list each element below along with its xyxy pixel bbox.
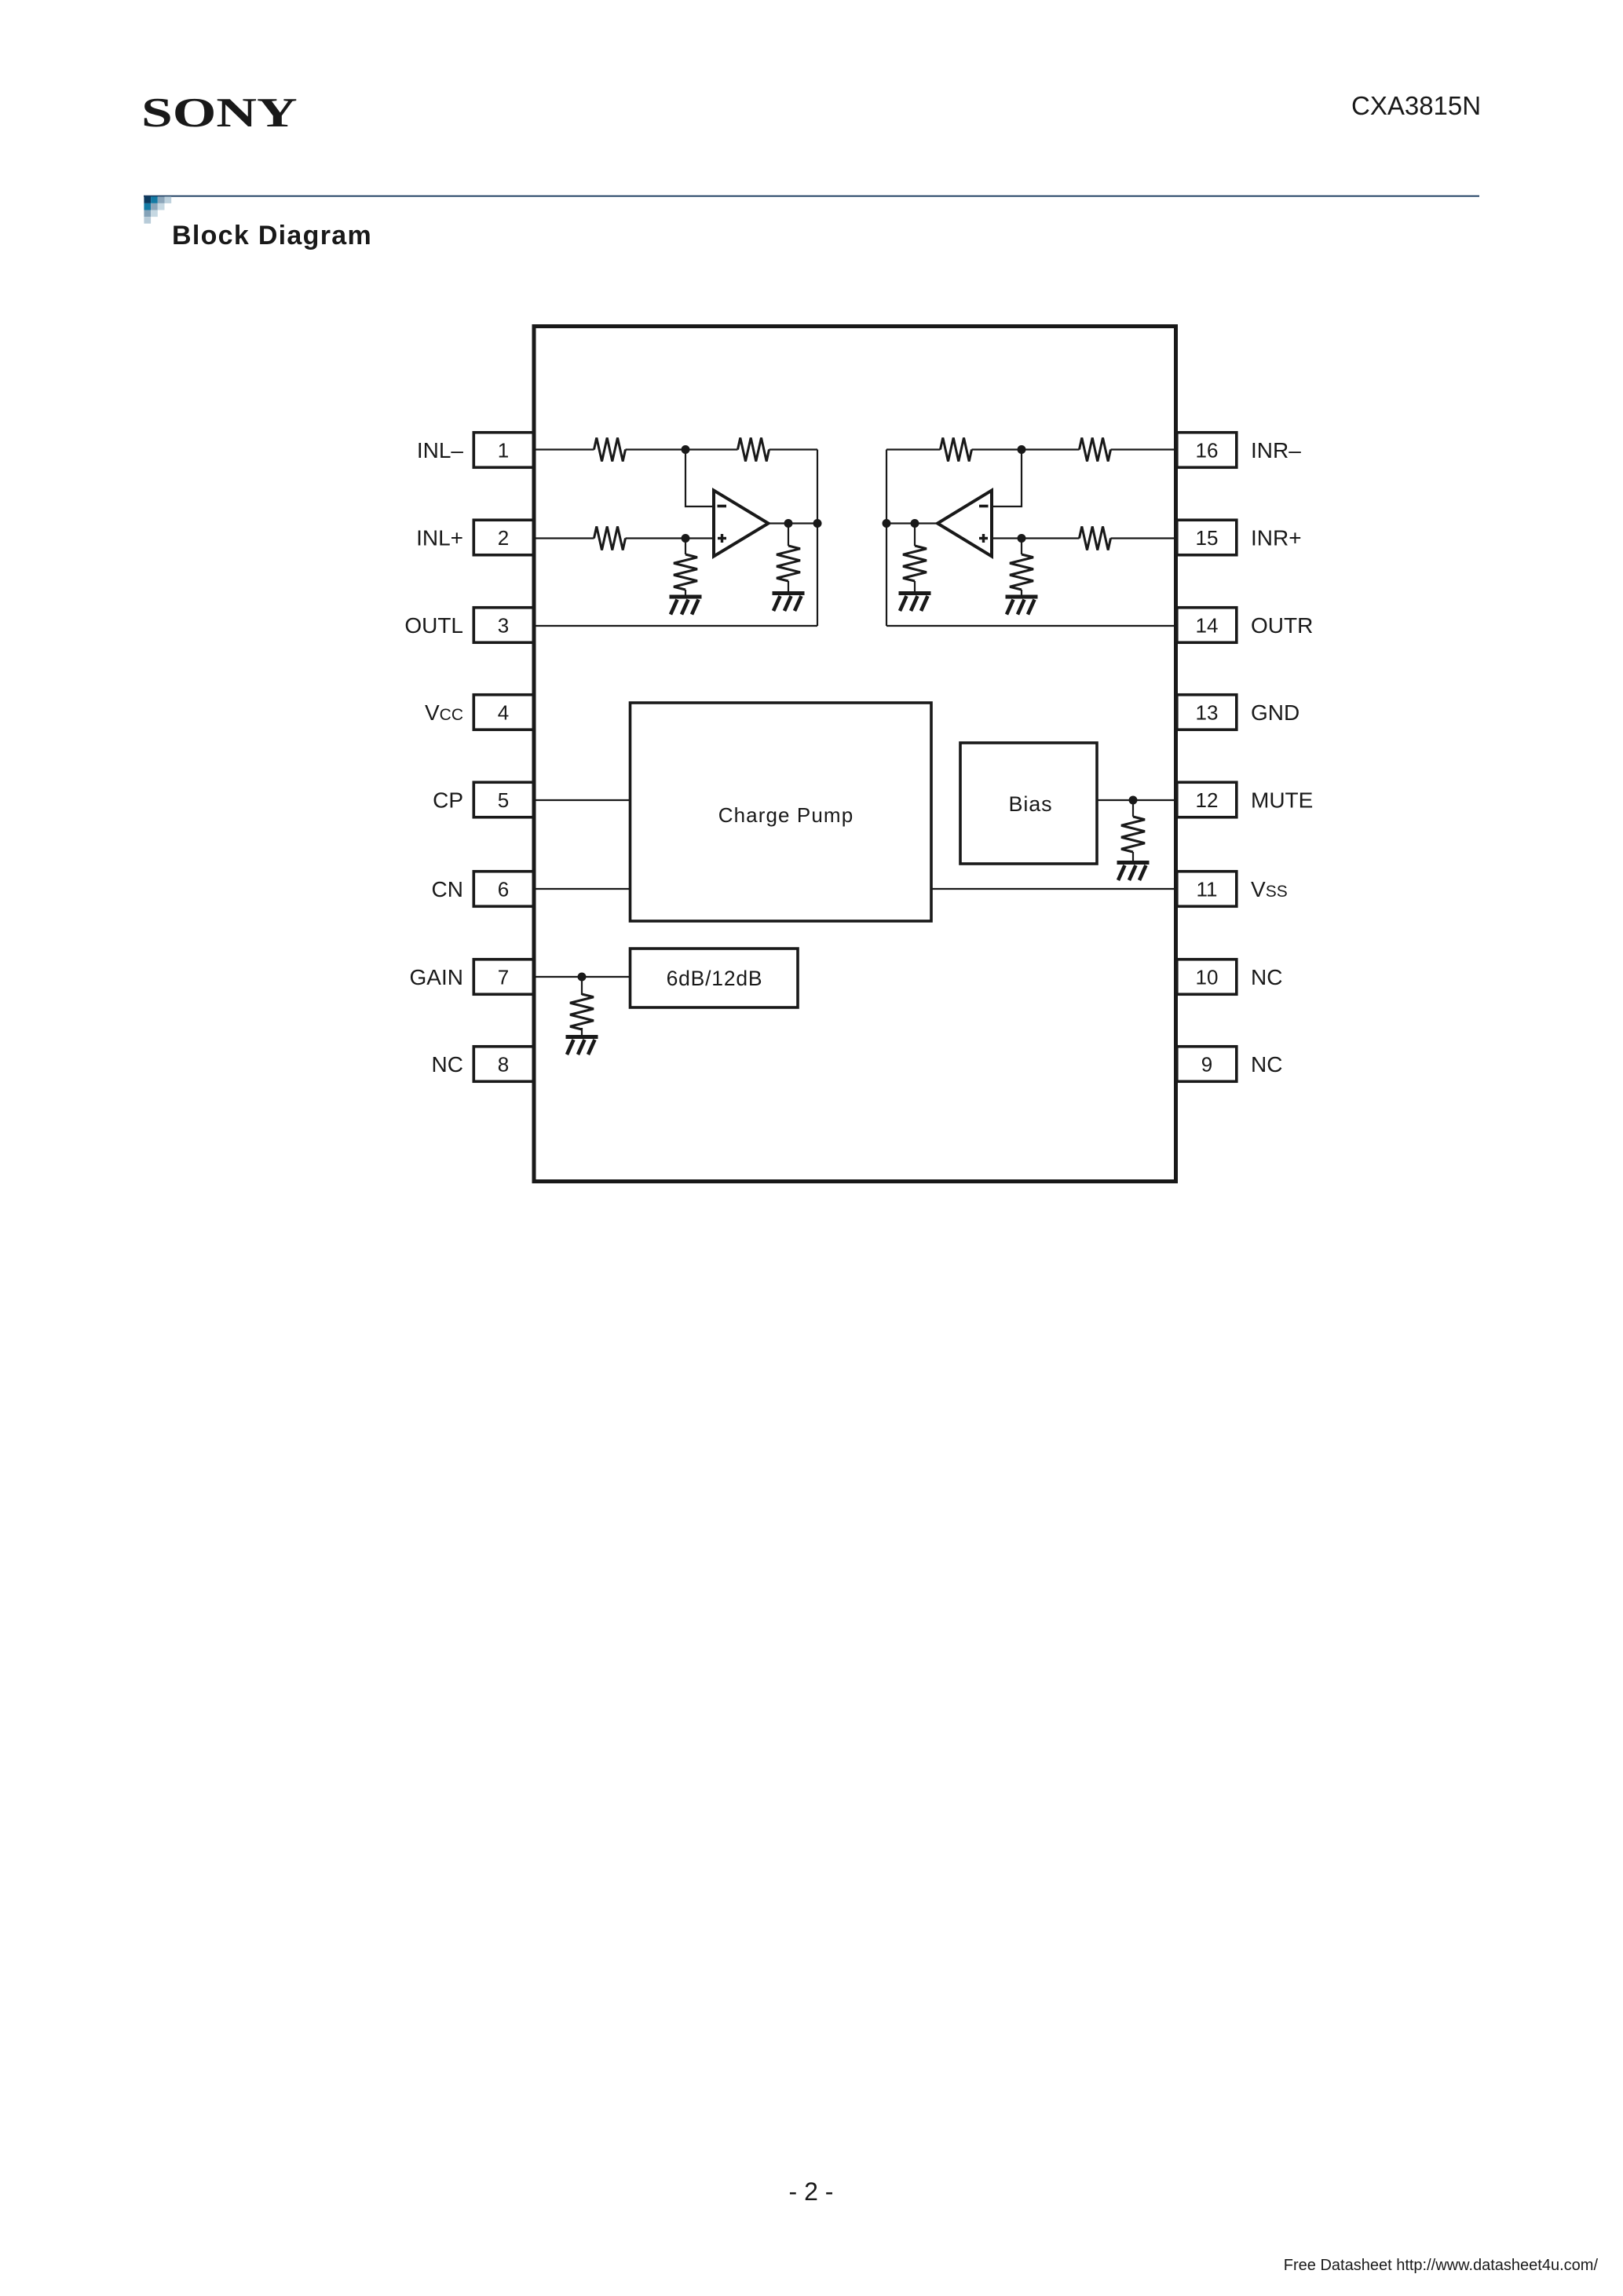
charge pump block xyxy=(631,703,932,921)
svg-text:15: 15 xyxy=(1196,526,1219,550)
op-amp U1 (left channel) xyxy=(714,491,769,557)
wire R to node E xyxy=(972,448,1080,450)
gain block 6dB/12dB xyxy=(631,949,799,1007)
svg-text:Block Diagram: Block Diagram xyxy=(172,221,372,250)
resistor left input R (INL-) xyxy=(594,438,626,462)
svg-text:13: 13 xyxy=(1196,700,1219,724)
pin 12 box (MUTE) xyxy=(1177,782,1237,817)
svg-text:OUTL: OUTL xyxy=(404,613,463,638)
wire node E down to inverting input xyxy=(992,450,1022,507)
pin 6 box (CN) xyxy=(473,872,533,907)
pin 13 box (GND) xyxy=(1177,695,1237,730)
wire bias to MUTE pin12 xyxy=(1097,799,1177,801)
wire resistor to ground xyxy=(1132,852,1134,861)
pin 16 box (INR–) xyxy=(1177,433,1237,468)
node B junction dot xyxy=(682,534,690,543)
svg-text:- 2 -: - 2 - xyxy=(789,2177,834,2206)
pin 4 box (Vcc) xyxy=(473,695,533,730)
wire GAIN node to resistor xyxy=(581,977,583,995)
U2 minus sign xyxy=(979,505,989,508)
ground right output load xyxy=(899,591,931,611)
wire left feedback vertical xyxy=(817,450,818,627)
wire INR+ pin15 to op-amp xyxy=(1111,537,1178,539)
node E junction dot xyxy=(1018,445,1026,454)
node C junction dot (U1 output) xyxy=(784,519,793,528)
pin 1 box (INL–) xyxy=(473,433,533,468)
svg-text:8: 8 xyxy=(498,1052,509,1076)
wire resistor to ground xyxy=(1021,590,1022,595)
wire node C to load resistor xyxy=(788,524,789,547)
resistor MUTE pulldown xyxy=(1121,817,1145,852)
U1 minus sign xyxy=(718,505,727,508)
wire INR- pin16 to R xyxy=(1111,448,1178,450)
ground GAIN pulldown xyxy=(566,1035,598,1055)
pin 3 box (OUTL) xyxy=(473,608,533,643)
wire resistor to ground xyxy=(788,581,789,591)
svg-text:7: 7 xyxy=(498,965,509,989)
svg-text:5: 5 xyxy=(498,788,509,812)
wire MUTE node to resistor xyxy=(1132,800,1134,817)
svg-text:VSS: VSS xyxy=(1251,877,1288,901)
svg-text:NC: NC xyxy=(1251,965,1282,989)
svg-text:OUTR: OUTR xyxy=(1251,613,1313,638)
ground MUTE pulldown xyxy=(1117,861,1150,880)
svg-text:VCC: VCC xyxy=(425,700,463,725)
resistor right input R (INR+) xyxy=(1080,527,1111,550)
resistor right output load xyxy=(903,546,927,581)
resistor left output load xyxy=(777,546,800,581)
pin 8 box (NC) xyxy=(473,1047,533,1082)
svg-text:Free Datasheet http://www.data: Free Datasheet http://www.datasheet4u.co… xyxy=(1284,2257,1599,2274)
svg-text:GND: GND xyxy=(1251,700,1299,725)
svg-text:NC: NC xyxy=(432,1052,463,1077)
wire GAIN pin7 to 6dB/12dB block xyxy=(534,976,631,978)
wire U2 output xyxy=(886,522,938,524)
wire feedback R to corner xyxy=(886,448,941,450)
resistor left feedback R xyxy=(738,438,769,462)
pin 2 box (INL+) xyxy=(473,520,533,555)
node MUTE junction dot xyxy=(1129,796,1138,805)
svg-text:6: 6 xyxy=(498,877,509,901)
pin 9 box (NC) xyxy=(1177,1047,1237,1082)
wire U1 output xyxy=(769,522,818,524)
wire resistor to ground xyxy=(581,1028,583,1035)
svg-text:INL–: INL– xyxy=(417,438,464,462)
node G junction dot (U2 output) xyxy=(911,519,919,528)
resistor right feedback R xyxy=(941,438,972,462)
wire node A down to inverting input xyxy=(685,450,714,507)
svg-text:MUTE: MUTE xyxy=(1251,788,1313,813)
svg-text:CN: CN xyxy=(432,877,463,901)
U2 plus sign xyxy=(979,534,988,543)
wire OUTL row pin3 xyxy=(534,625,817,627)
svg-text:INR+: INR+ xyxy=(1251,526,1302,550)
wire resistor to ground xyxy=(685,590,686,595)
wire CP pin5 to charge pump xyxy=(534,799,631,801)
U1 plus sign xyxy=(718,534,726,543)
node F junction dot xyxy=(1018,534,1026,543)
header rule xyxy=(144,196,1479,197)
svg-text:GAIN: GAIN xyxy=(410,965,463,989)
wire INL- pin1 to R xyxy=(534,448,594,450)
svg-text:16: 16 xyxy=(1196,438,1219,462)
svg-text:CXA3815N: CXA3815N xyxy=(1351,91,1481,120)
wire node B to bias resistor xyxy=(685,539,686,555)
IC outline CXA3815N xyxy=(534,327,1176,1182)
wire Vss charge pump to pin11 xyxy=(931,888,1177,890)
svg-text:1: 1 xyxy=(498,438,509,462)
wire OUTR row pin14 xyxy=(886,625,1177,627)
resistor left input R (INL+) xyxy=(594,527,626,550)
node H junction dot (feedback tie) xyxy=(883,519,891,528)
wire R to node A xyxy=(626,448,738,450)
svg-text:CP: CP xyxy=(433,788,463,813)
ground right +input xyxy=(1006,595,1038,615)
wire right feedback vertical xyxy=(886,450,887,627)
pin 7 box (GAIN) xyxy=(473,960,533,995)
svg-text:SONY: SONY xyxy=(141,90,298,136)
svg-text:Bias: Bias xyxy=(1008,792,1052,816)
node A junction dot xyxy=(682,445,690,454)
resistor right input R (INR-) xyxy=(1080,438,1111,462)
svg-text:9: 9 xyxy=(1201,1052,1212,1076)
pin 14 box (OUTR) xyxy=(1177,608,1237,643)
pin 15 box (INR+) xyxy=(1177,520,1237,555)
resistor right +input to ground xyxy=(1010,554,1033,590)
wire INL+ pin2 to op-amp xyxy=(534,537,594,539)
resistor GAIN pulldown xyxy=(570,994,594,1029)
op-amp U2 (right channel) xyxy=(938,491,992,557)
header staircase icon xyxy=(144,196,171,223)
svg-text:INL+: INL+ xyxy=(416,526,463,550)
svg-text:NC: NC xyxy=(1251,1052,1282,1077)
svg-text:10: 10 xyxy=(1196,965,1219,989)
wire feedback R to corner xyxy=(769,448,818,450)
svg-text:INR–: INR– xyxy=(1251,438,1301,462)
svg-text:14: 14 xyxy=(1196,613,1219,637)
svg-text:2: 2 xyxy=(498,526,509,550)
svg-text:Charge Pump: Charge Pump xyxy=(718,803,854,827)
svg-text:12: 12 xyxy=(1196,788,1219,812)
pin 5 box (CP) xyxy=(473,782,533,817)
node D junction dot (feedback tie) xyxy=(813,519,822,528)
wire CN pin6 to charge pump xyxy=(534,888,631,890)
node GAIN junction dot xyxy=(578,973,587,982)
bias block xyxy=(960,743,1097,864)
wire node G to load resistor xyxy=(914,524,916,547)
resistor left +input to ground xyxy=(674,554,697,590)
svg-text:11: 11 xyxy=(1197,877,1218,901)
pin 10 box (NC) xyxy=(1177,960,1237,995)
wire resistor to ground xyxy=(914,581,916,591)
ground left +input xyxy=(670,595,702,615)
svg-text:6dB/12dB: 6dB/12dB xyxy=(667,967,763,990)
svg-text:4: 4 xyxy=(498,700,509,724)
wire node F to bias resistor xyxy=(1021,539,1022,555)
svg-text:3: 3 xyxy=(498,613,509,637)
pin 11 box (Vss) xyxy=(1177,872,1237,907)
ground left output load xyxy=(773,591,805,611)
